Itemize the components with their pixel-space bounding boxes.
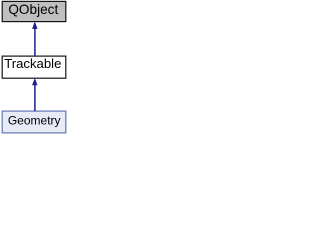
svg-text:QObject: QObject bbox=[8, 2, 58, 17]
svg-text:Geometry: Geometry bbox=[8, 114, 61, 128]
svg-text:Trackable: Trackable bbox=[4, 56, 61, 71]
